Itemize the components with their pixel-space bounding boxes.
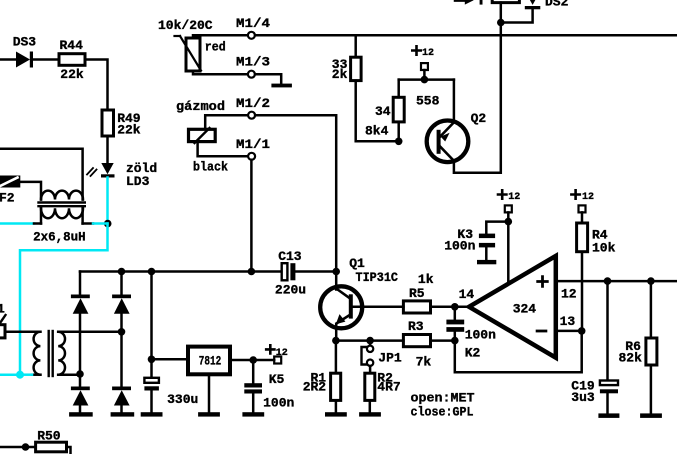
svg-text:4R7: 4R7 <box>377 379 400 394</box>
wire feedback loop <box>455 331 582 372</box>
node transformer/col2 <box>118 328 126 336</box>
+12 terminal K5 <box>266 345 274 353</box>
op-amp U1 324 <box>469 256 556 358</box>
+12 terminal R4 <box>571 190 579 198</box>
svg-text:558: 558 <box>416 93 440 108</box>
capacitor K2 100n <box>454 307 457 320</box>
wire R49 to LD3 <box>106 136 109 164</box>
terminal M1/3 <box>248 71 255 78</box>
wire cyan choke to junction <box>93 222 108 225</box>
wire NTC top to M1/4 <box>193 35 248 38</box>
ground K5 <box>242 412 264 416</box>
choke core <box>39 201 85 203</box>
svg-text:22k: 22k <box>117 123 141 138</box>
svg-text:open:MET: open:MET <box>411 391 475 406</box>
diode bridge D bottom-right <box>112 387 131 406</box>
wire coil to node <box>500 3 503 23</box>
svg-text:black: black <box>193 160 228 175</box>
terminal M1/2 <box>248 112 255 119</box>
diode bridge D top-left <box>71 295 90 314</box>
svg-text:close:GPL: close:GPL <box>411 404 474 419</box>
wire M1/1 down to rail <box>250 160 253 272</box>
ground K3 <box>477 260 496 264</box>
wire collector Q2 to DS2 node <box>454 23 501 173</box>
svg-text:14: 14 <box>459 287 475 302</box>
svg-text:M1/4: M1/4 <box>236 16 270 31</box>
wire R5 to pin14 node <box>431 306 470 309</box>
capacitor K5 100n <box>252 360 255 383</box>
svg-text:gázmod: gázmod <box>176 99 225 114</box>
wire cyan down-left to transformer <box>20 224 108 375</box>
node emitter/R1 <box>332 337 340 345</box>
resistor 34 8k4 <box>397 80 400 98</box>
bridge column 2 <box>120 272 123 295</box>
node choke/LED junction <box>104 220 112 228</box>
ground col2 <box>111 412 135 416</box>
svg-text:12: 12 <box>561 286 577 301</box>
wire R44 to R49 <box>85 60 108 111</box>
svg-text:22k: 22k <box>60 67 84 82</box>
bridge column 1 <box>79 272 82 295</box>
resistor R6 82k <box>650 281 653 338</box>
svg-text:1: 1 <box>0 302 5 317</box>
resistor 33 2k <box>354 35 357 57</box>
jumper JP1 <box>369 341 372 346</box>
node K5 <box>249 356 257 364</box>
resistor R2 4R7 <box>365 373 375 400</box>
+12 terminal (558) <box>412 46 420 54</box>
wire M1/2 to C13 rail <box>255 115 336 271</box>
node rail/M1-1 <box>248 268 256 276</box>
svg-text:100n: 100n <box>444 238 475 253</box>
node K3/V+ <box>505 218 513 226</box>
svg-text:2x6,8uH: 2x6,8uH <box>33 230 86 245</box>
ground <box>271 84 292 88</box>
inductor choke bottom winding 2x6,8uH <box>41 208 83 218</box>
capacitor 330u <box>150 272 153 378</box>
svg-text:7812: 7812 <box>199 354 222 369</box>
svg-text:100n: 100n <box>263 396 294 411</box>
svg-text:K5: K5 <box>269 372 285 387</box>
transistor Q2 <box>427 121 469 163</box>
wire Q1 base to R5 <box>353 306 404 309</box>
diode bridge D top-right <box>112 295 131 314</box>
wire main rail <box>80 270 282 273</box>
wire Q1 emitter node <box>336 339 403 342</box>
svg-text:F2: F2 <box>0 191 15 206</box>
svg-text:330u: 330u <box>167 392 198 407</box>
capacitor K3 100n <box>486 222 508 234</box>
wire left input to DS3 <box>0 58 17 61</box>
wire rail +12 top <box>255 34 677 37</box>
relay coil box partial <box>492 0 519 3</box>
wire choke bottom right <box>83 222 93 225</box>
svg-text:R44: R44 <box>60 38 84 53</box>
wire LD3 cathode (cyan) <box>106 178 109 224</box>
wire supply node <box>399 78 454 81</box>
transformer secondary winding <box>58 332 65 375</box>
svg-text:DS2: DS2 <box>545 0 569 10</box>
capacitor C19 3u3 <box>606 281 609 380</box>
svg-text:324: 324 <box>513 301 537 316</box>
LED LD3 zöld <box>101 163 115 178</box>
svg-text:12: 12 <box>422 48 434 59</box>
node 330u/7812 <box>148 356 156 364</box>
node base Q2 <box>395 138 403 146</box>
terminal M1/4 <box>248 32 255 39</box>
svg-text:Q1: Q1 <box>349 256 365 271</box>
wire valve to M1/2 <box>205 115 248 129</box>
svg-text:LD3: LD3 <box>126 174 150 189</box>
ground 7812 <box>198 412 220 416</box>
svg-text:7k: 7k <box>416 354 432 369</box>
svg-text:10k: 10k <box>592 241 616 256</box>
wire F1 to transformer <box>5 331 40 334</box>
wire F2 to choke <box>20 182 41 200</box>
wire R4 to pin13 <box>581 252 584 331</box>
capacitor C13 220u <box>282 263 288 280</box>
svg-text:R5: R5 <box>409 286 425 301</box>
node R3/K2 <box>451 337 459 345</box>
svg-text:M1/1: M1/1 <box>236 137 270 152</box>
wire emitter Q2 <box>453 80 456 122</box>
resistor R1 2R2 <box>335 341 338 374</box>
diode top partial <box>465 0 483 5</box>
svg-text:2k: 2k <box>332 67 348 82</box>
wire R3 to cap node <box>431 339 455 342</box>
svg-text:82k: 82k <box>619 351 643 366</box>
resistor R50 <box>0 446 36 449</box>
resistor R5 1k <box>403 301 430 313</box>
wire cyan to left edge <box>0 373 20 376</box>
ground R6 <box>640 413 662 418</box>
wire M1/3 to ground <box>255 74 281 84</box>
wire top loop to choke <box>0 149 83 200</box>
diode DS3 <box>16 52 33 68</box>
svg-text:2R2: 2R2 <box>303 379 327 394</box>
wire DS2 to node <box>501 9 533 22</box>
node C19 <box>604 277 612 285</box>
wire primary bottom <box>32 373 40 376</box>
resistor R4 10k <box>577 223 588 252</box>
wire valve bottom to M1/1 <box>198 142 248 157</box>
node R6 <box>647 277 655 285</box>
transformer core <box>48 331 50 376</box>
wire C13 to Q1 collector node <box>295 270 336 273</box>
node rail/330u <box>148 268 156 276</box>
fuse F1 partial <box>0 325 5 338</box>
svg-text:M1/3: M1/3 <box>236 55 270 70</box>
wire secondary top to col2 <box>58 331 121 334</box>
wire DS3 to R44 <box>33 58 59 61</box>
fuse F2 <box>0 176 20 188</box>
regulator 7812 <box>152 358 189 361</box>
wire 2k to base node <box>356 81 399 142</box>
transistor Q1 TIP31C <box>320 286 362 328</box>
node +12/558 <box>421 76 429 84</box>
+12 terminal K3 <box>498 190 506 198</box>
node rail/bridge col2 <box>118 268 126 276</box>
svg-text:C13: C13 <box>278 249 302 264</box>
terminal M1/1 <box>248 153 255 160</box>
svg-text:M1/2: M1/2 <box>236 96 270 111</box>
ground C19 <box>598 413 619 418</box>
svg-text:R3: R3 <box>408 319 424 334</box>
wire 7812 out <box>230 359 274 362</box>
svg-text:220u: 220u <box>275 283 306 298</box>
svg-text:TIP31C: TIP31C <box>356 270 399 285</box>
wire pin 12 output rail <box>556 280 677 283</box>
node pin13/R4 <box>578 327 586 335</box>
node rail/Q1 collector <box>332 268 340 276</box>
resistor R44 22k <box>59 54 85 66</box>
inductor choke top winding <box>41 191 83 200</box>
diode bridge D bottom-left <box>71 387 90 406</box>
node DS2 junction <box>497 19 505 27</box>
resistor R49 22k <box>102 110 114 136</box>
svg-text:8k4: 8k4 <box>365 123 389 138</box>
diode DS2 <box>525 0 541 9</box>
node cyan junction <box>16 371 24 379</box>
ground col1 <box>69 412 93 416</box>
svg-text:34: 34 <box>375 104 391 119</box>
svg-text:Q2: Q2 <box>471 111 487 126</box>
transformer primary winding <box>34 332 41 375</box>
wire V+ to op-amp <box>507 222 510 284</box>
resistor R3 7k <box>403 335 430 347</box>
svg-text:R50: R50 <box>37 429 61 444</box>
wire cyan mains left <box>0 222 34 225</box>
ground 330u <box>141 412 163 416</box>
ground R2 <box>359 412 381 416</box>
svg-text:DS3: DS3 <box>13 35 37 50</box>
ground R1 <box>325 412 347 416</box>
wire secondary bottom to col1 <box>58 373 80 376</box>
svg-text:K2: K2 <box>465 345 481 360</box>
svg-text:1k: 1k <box>418 272 434 287</box>
svg-text:13: 13 <box>560 314 576 329</box>
wire pin 13 <box>556 330 582 333</box>
svg-text:3u3: 3u3 <box>571 390 595 405</box>
svg-text:12: 12 <box>508 192 520 203</box>
svg-text:100n: 100n <box>465 328 496 343</box>
svg-text:10k/20C: 10k/20C <box>158 18 213 33</box>
node pin14 <box>451 303 459 311</box>
svg-text:JP1: JP1 <box>378 350 402 365</box>
node JP1 top <box>366 337 374 345</box>
wire NTC bottom to M1/3 <box>193 71 248 74</box>
wire choke bottom left <box>34 222 41 225</box>
svg-text:12: 12 <box>582 192 594 203</box>
svg-text:red: red <box>205 40 226 55</box>
node transformer/col1 <box>76 370 84 378</box>
